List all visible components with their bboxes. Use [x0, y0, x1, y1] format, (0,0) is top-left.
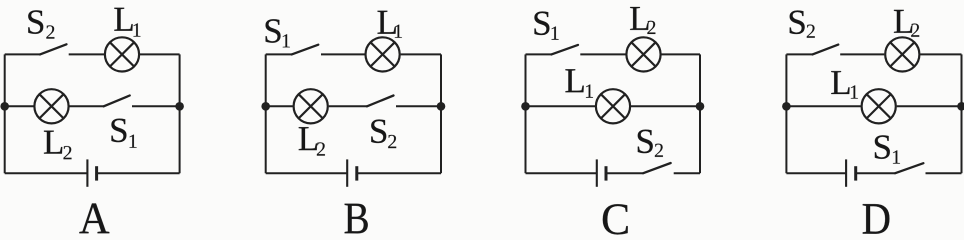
wire: D left rail: [785, 54, 787, 173]
wire: D lamp L1 to right rail: [897, 105, 962, 107]
junction node (circuit D, right): [957, 102, 964, 111]
wire: D top-left to switch S2: [786, 53, 812, 55]
junction node (circuit B, right): [437, 102, 446, 111]
label S2 (circuit B): [371, 120, 396, 149]
wire: C battery to switch S2: [606, 172, 643, 174]
label S1 (circuit C): [534, 12, 558, 40]
wire: D mid-left to lamp L1: [786, 105, 860, 107]
wire: A mid-left to lamp L2: [5, 105, 34, 107]
wire: C left rail: [525, 54, 527, 173]
answer letter A: [79, 203, 109, 233]
wire: C switch S2 to right rail: [674, 172, 700, 174]
switch S2 blade (circuit C, open): [643, 163, 671, 173]
wire: C switch S1 to lamp L2: [580, 53, 625, 55]
wire: D bottom-left to battery: [786, 172, 846, 174]
answer letter D: [863, 204, 890, 234]
wire: C lamp L2 to right rail: [662, 53, 701, 55]
wire: A bottom-left to battery: [5, 172, 88, 174]
wire: B battery to right rail: [357, 172, 441, 174]
junction node (circuit A, right): [175, 102, 184, 111]
wire: B lamp L1 to right rail: [401, 53, 441, 55]
wire: A right rail: [179, 54, 181, 173]
wire: D battery to switch S1: [856, 172, 896, 174]
label L2 (circuit C): [630, 7, 655, 34]
battery (circuit D): [846, 159, 856, 186]
label S2 (circuit C): [638, 130, 663, 157]
wire: A left rail: [4, 54, 6, 173]
wire: C bottom-left to battery: [526, 172, 597, 174]
switch S1 blade (circuit A, open): [104, 96, 130, 107]
lamp L2 (circuit D): [885, 37, 919, 71]
lamp L1 (circuit B): [366, 37, 400, 71]
wire: B mid-left to lamp L2: [266, 105, 293, 107]
wire: C mid-left to lamp L1: [526, 105, 596, 107]
switch S2 blade (circuit A, open): [40, 44, 67, 54]
wire: B top-left to switch S1: [266, 53, 292, 55]
label L1 (circuit D): [831, 71, 858, 99]
wire: C top-left to switch S1: [526, 53, 552, 55]
answer letter C: [603, 204, 628, 234]
switch S1 blade (circuit D, open): [895, 163, 923, 173]
wire: A top-left to switch S2: [5, 53, 40, 55]
wire: C right rail: [699, 54, 701, 173]
label L1 (circuit C): [565, 69, 593, 97]
label L1 (circuit A): [114, 8, 140, 37]
junction node (circuit C, left): [521, 102, 530, 111]
wire: A switch S2 to lamp L1: [69, 53, 104, 55]
wire: D switch S1 to right rail: [926, 172, 962, 174]
switch S2 blade (circuit D, open): [813, 45, 839, 55]
switch S2 blade (circuit B, open): [367, 96, 394, 107]
label L1 (circuit B): [378, 11, 402, 38]
label S2 (circuit A): [28, 10, 54, 38]
answer letter B: [345, 204, 368, 234]
wire: A battery to right rail: [97, 172, 180, 174]
lamp L2 (circuit A): [34, 89, 68, 123]
junction node (circuit A, left): [0, 102, 9, 111]
wire: A lamp L1 to right rail: [140, 53, 180, 55]
wire: B right rail: [440, 54, 442, 173]
wire: D switch S2 to lamp L2: [840, 53, 884, 55]
label L2 (circuit D): [894, 10, 919, 37]
switch S1 blade (circuit B, open): [292, 45, 319, 55]
wire: D lamp L2 to right rail: [920, 53, 961, 55]
wire: B switch S2 to right rail: [396, 105, 441, 107]
lamp L1 (circuit D): [862, 89, 896, 123]
wire: B bottom-left to battery: [266, 172, 348, 174]
wire: B switch S1 to lamp L1: [321, 53, 365, 55]
wire: B left rail: [265, 54, 267, 173]
junction node (circuit C, right): [696, 102, 705, 111]
battery (circuit C): [597, 159, 606, 186]
label L2 (circuit B): [299, 127, 325, 155]
wire: D right rail: [961, 54, 963, 173]
junction node (circuit B, left): [261, 102, 270, 111]
wire: A lamp L2 to switch S1: [70, 105, 104, 107]
lamp L2 (circuit B): [294, 89, 328, 123]
label S1 (circuit B): [266, 19, 290, 47]
label S1 (circuit D): [875, 135, 900, 163]
label S2 (circuit D): [790, 11, 815, 38]
switch S1 blade (circuit C, open): [551, 45, 578, 55]
wire: B lamp L2 to switch S2: [329, 105, 367, 107]
wire: A switch S1 to right rail: [132, 105, 180, 107]
junction node (circuit D, left): [782, 102, 791, 111]
lamp L2 (circuit C): [626, 37, 660, 71]
wire: C lamp L1 to right rail: [631, 105, 700, 107]
label S1 (circuit A): [111, 119, 136, 148]
lamp L1 (circuit C): [596, 89, 630, 123]
lamp L1 (circuit A): [105, 37, 139, 71]
label L2 (circuit A): [44, 131, 72, 160]
battery (circuit B): [347, 159, 357, 186]
battery (circuit A): [87, 159, 96, 186]
